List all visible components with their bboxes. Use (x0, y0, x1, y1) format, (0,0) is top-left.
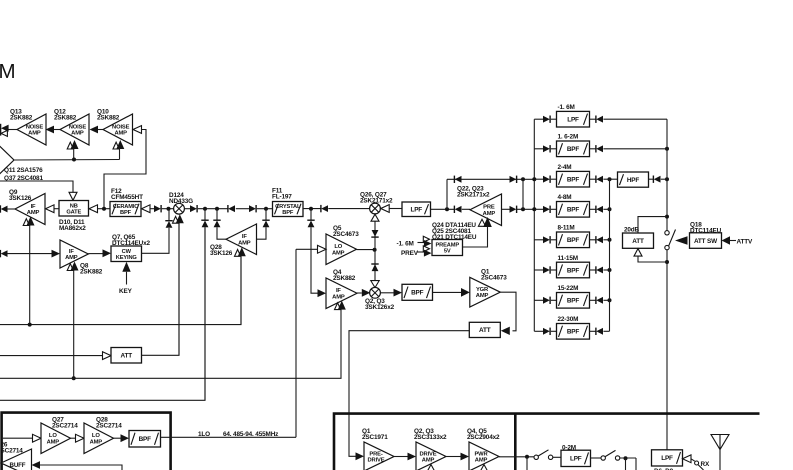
wire right bus x=667 upper (666, 119, 668, 230)
switch on right bus (RX att bypass) (665, 231, 669, 235)
wire PA output (499, 456, 534, 458)
svg-text:AMP: AMP (114, 131, 127, 137)
wire bank row 5 right (590, 239, 596, 241)
arrow into mixer D124 bottom (double) (173, 216, 179, 223)
diode at left edge of noise amp output (with direction arrow) (0, 124, 2, 136)
wire bank row 2 left (534, 148, 543, 150)
svg-text:AMP: AMP (71, 131, 84, 137)
svg-text:2SK2171x2: 2SK2171x2 (457, 192, 490, 199)
wire LO junction up to mixer Q26/Q27 (374, 221, 376, 250)
wire to drive amp (394, 456, 408, 458)
svg-text:ATT: ATT (121, 353, 133, 360)
filter BPF 11-15M (557, 262, 590, 278)
wire corner down x=636 (635, 458, 637, 470)
diode at left edge y=253.6 (0, 250, 1, 257)
gate arrow under Q9 (23, 219, 29, 226)
node right bus junction y=148.8 (665, 147, 669, 151)
diode hanging at x=266 (Q28 input) (262, 219, 269, 221)
svg-text:NB: NB (70, 203, 78, 209)
svg-text:BPF: BPF (567, 298, 580, 305)
svg-text:22-30M: 22-30M (558, 316, 579, 323)
node inner bus junction row 5 (608, 238, 612, 242)
wire row 3 to HPF junction (603, 178, 617, 180)
diode bank row 8 right (595, 328, 597, 335)
svg-text:2SK882: 2SK882 (97, 115, 120, 122)
svg-text:ATT: ATT (479, 327, 491, 334)
wire bank row 1 right (590, 118, 596, 120)
svg-text:BPF: BPF (120, 210, 132, 216)
arrow into DRIVE AMP (408, 453, 417, 461)
gate arrows under preamp (478, 219, 485, 226)
svg-text:LO: LO (92, 433, 100, 439)
diode bank row 2 left (543, 145, 550, 152)
gate arrow under Q12 (67, 142, 73, 149)
svg-text:3SK126x2: 3SK126x2 (365, 304, 395, 311)
svg-text:2SC4673: 2SC4673 (481, 274, 507, 281)
wire to PWR amp (446, 456, 461, 458)
svg-text:1LO: 1LO (198, 431, 210, 438)
diode on bypass left (453, 176, 455, 183)
arrow into Q9 input (hollow) (46, 205, 55, 213)
diode in LO path down (points up) (371, 263, 378, 265)
svg-text:IF: IF (31, 204, 36, 210)
node junction bypass x=523 (521, 177, 525, 181)
svg-text:BPF: BPF (139, 436, 152, 443)
wire Q4 output to mixer Q2/Q3 (357, 292, 362, 294)
wire IF line 2 left segment (7, 253, 52, 255)
attenuator ATT 20dB (623, 233, 654, 248)
svg-text:-1. 6M: -1. 6M (558, 104, 575, 111)
svg-text:DRIVE: DRIVE (368, 458, 385, 464)
diode bank row 3 right (595, 176, 597, 183)
filter BPF 8-11M (557, 232, 590, 248)
wire preamp base to diode (502, 208, 510, 210)
wire switch 2 to junction (620, 457, 636, 459)
wire AGC line B y=378.3 (0, 309, 341, 379)
wire preamp bypass top y=179.3 (447, 178, 534, 180)
mixer Q2,Q3 3SK126x2 (TX mixer) (370, 287, 381, 298)
diode bank row 1 right (595, 116, 597, 123)
svg-text:AMP: AMP (332, 294, 345, 300)
wire mixer Q2/Q3 output (380, 292, 393, 294)
svg-text:4-8M: 4-8M (558, 194, 572, 201)
wire x=205 down to AGC line C (204, 227, 206, 400)
pre-driver Q1 2SC1971 (364, 442, 394, 470)
wire x=205 diode top stub (204, 209, 206, 220)
wire VCO input y=438 (3, 437, 33, 439)
wire bank row 7 to inner bus (603, 299, 609, 301)
wire PREV to preamp box (417, 251, 425, 253)
svg-text:LO: LO (334, 244, 342, 250)
svg-text:BPF: BPF (567, 237, 580, 244)
svg-text:NOISE: NOISE (112, 124, 130, 130)
preamp Q22,Q23 2SK2171x2 (470, 194, 502, 226)
wire Q28 output tip up to IF line (217, 227, 226, 239)
svg-text:IF: IF (242, 234, 247, 240)
wire Q28 to BPF (114, 437, 122, 439)
arrow into mixer Q2/Q3 top (hollow, down) (371, 281, 379, 288)
arrow into NB GATE top (hollow, down) (69, 192, 77, 200)
svg-text:BPF: BPF (567, 207, 580, 214)
arrow into mixer right side (hollow) (381, 205, 390, 213)
noise amp Q10 (103, 114, 133, 145)
svg-text:LPF: LPF (661, 455, 673, 462)
node junction y=216.6 (665, 215, 669, 219)
svg-text:ATT: ATT (632, 238, 644, 245)
svg-text:BPF: BPF (411, 290, 424, 297)
svg-text:CERAMIC: CERAMIC (113, 204, 139, 210)
mixer Q26,Q27 2SK2171x2 (1st RX mixer) (370, 203, 381, 214)
arrow into BUFF input (points left) (32, 461, 41, 469)
gate arrow under Q10 (113, 142, 119, 149)
wire Q10 tip to Q12 input arrow (98, 129, 103, 131)
arrow into Q8 input (52, 250, 61, 258)
KEY input arrow (122, 262, 130, 272)
gate arrow under PWR amp (clipped) (480, 465, 488, 470)
power amp Q4,Q5 2SC2904x2 (469, 442, 499, 470)
wire bank row 3 right (590, 178, 596, 180)
svg-text:8-11M: 8-11M (558, 225, 575, 232)
svg-text:AMP: AMP (47, 439, 60, 445)
svg-text:2SC3133x2: 2SC3133x2 (414, 434, 447, 441)
arrow ATT SW output (points left) (675, 236, 688, 245)
wire diode to mixer (328, 208, 369, 210)
wire Q27 to Q28 (71, 437, 77, 439)
arrow into F12 (hollow) (142, 205, 151, 213)
wire to mixer D124 (162, 208, 174, 210)
CW KEYING box Q7,Q65 DTC114EUx2 (111, 246, 142, 262)
svg-text:MA862x2: MA862x2 (59, 225, 86, 232)
arrow into TX ATT (points left) (501, 327, 510, 335)
svg-text:AMP: AMP (483, 211, 496, 217)
wire junction down x=625.5 (625, 458, 627, 470)
wire bank row 7 right (590, 299, 596, 301)
wire inner right bus x=609.5 (609, 179, 611, 331)
wire ceramic BPF to NB GATE (98, 208, 111, 210)
diode hanging at x=217 (Q28 output) (213, 219, 220, 221)
diode bank row 5 right (595, 236, 597, 243)
node junction x=609.5 y=179 (608, 177, 612, 181)
wire AGC line C y=400.3 (0, 227, 205, 400)
svg-text:NOISE: NOISE (69, 124, 87, 130)
wire AGC line A y=324.6 (0, 256, 241, 325)
node junction x=523 y=209 (521, 207, 525, 211)
gate arrow under Q4 (335, 303, 341, 310)
svg-text:PREV: PREV (401, 250, 419, 257)
svg-text:LPF: LPF (570, 456, 582, 463)
svg-text:FL-197: FL-197 (272, 194, 292, 201)
node inner bus junction row 4 (608, 207, 612, 211)
gate arrow under drive amp (clipped) (427, 465, 435, 470)
wire segment (236, 208, 249, 210)
IF amp Q8 (60, 240, 88, 268)
filter LPF (antenna) (652, 450, 683, 466)
arrow ATTV into ATT SW (points left) (722, 236, 731, 244)
arrow into Q13 input (46, 126, 55, 134)
diode bank row 2 right (595, 145, 597, 152)
svg-text:KEYING: KEYING (116, 255, 138, 261)
wire BPF to YGR amp (433, 291, 462, 293)
filter BPF (1st LO) (129, 431, 161, 448)
NB GATE box D10 D11 (59, 201, 89, 217)
wire 1st LO feed to Q5 (296, 248, 318, 250)
svg-text:IF: IF (69, 249, 74, 255)
wire HPF diode to right bus (649, 178, 654, 180)
wire bank row 8 to inner bus (603, 330, 609, 332)
wire bank row 5 to inner bus (603, 239, 609, 241)
svg-text:-1. 6M: -1. 6M (397, 240, 414, 247)
svg-text:2SC2904x2: 2SC2904x2 (467, 434, 500, 441)
diode bank row 8 left (543, 328, 550, 335)
diode on IF line x=249 (249, 205, 256, 212)
svg-text:2SC4673: 2SC4673 (333, 231, 359, 238)
wire bank left bus x=534.3 (533, 119, 535, 331)
svg-text:NOISE: NOISE (26, 124, 44, 130)
wire Q8 gate down to line B (73, 270, 75, 379)
filter LPF 0-2M (561, 450, 591, 466)
wire Q9 gate down to AGC line A (29, 225, 31, 325)
arrow -1.6M into PREAMP box (double) (423, 236, 429, 242)
wire bank row 2 right (590, 148, 596, 150)
wire 2nd LO into D124 from ATT below (178, 221, 180, 355)
wire ATT row input y=355.6 (0, 355, 103, 357)
filter HPF (618, 172, 649, 187)
node junction x=447 preamp bypass (445, 207, 449, 211)
wire bank row 1 left (534, 118, 543, 120)
diode on bypass right (510, 176, 517, 183)
svg-text:2SK882: 2SK882 (54, 115, 77, 122)
svg-text:15-22M: 15-22M (558, 285, 579, 292)
svg-text:BPF: BPF (567, 267, 580, 274)
svg-text:IF: IF (336, 288, 341, 294)
wire bank row 6 right (590, 269, 596, 271)
wire PREAMP 5V to preamp gate (463, 227, 488, 247)
PREAMP 5V control box (432, 240, 463, 256)
arrow into Q10 input (hollow) (133, 126, 142, 134)
wire bypass vertical x=523 (522, 179, 524, 209)
node AGC junction under Q12 (72, 158, 76, 162)
IF amp Q28 (reverse) (226, 224, 257, 255)
wire diode to preamp tip (462, 208, 470, 210)
svg-text:2SK2171x2: 2SK2171x2 (360, 198, 393, 205)
svg-text:ATTV: ATTV (737, 238, 753, 245)
wire ATTV (730, 240, 736, 242)
diode bank row 6 left (543, 267, 550, 274)
wire -1.6M to preamp box (418, 242, 425, 244)
amp Q1 2SC4673 YGR (470, 277, 501, 307)
wire bank row 5 left (534, 239, 543, 241)
driver Q2,Q3 2SC3133x2 (416, 442, 446, 470)
svg-text:Q11 2SA1576: Q11 2SA1576 (4, 167, 43, 174)
arrow into Q12 input (90, 126, 99, 134)
wire LPF to preamp section (431, 208, 455, 210)
wire IF line junction down to Q28 input (257, 227, 267, 239)
wire NB GATE to Q9 (54, 208, 59, 210)
svg-text:AMP: AMP (475, 458, 488, 464)
filter BPF 15-22M (557, 293, 590, 309)
svg-text:BPF: BPF (567, 329, 580, 336)
node LO junction x=374.6 (373, 248, 377, 252)
wire bank row 6 to inner bus (603, 269, 609, 271)
buffer amp Q26 2SC2714 (clipped) (1, 449, 32, 470)
svg-text:2SK882: 2SK882 (10, 115, 33, 122)
arrow into Q5 input (hollow) (318, 245, 327, 253)
diode bank row 4 left (543, 206, 550, 213)
switch RX (695, 461, 699, 465)
diode bank row 3 left (543, 176, 550, 183)
ceramic filter F12 CFM455HT (110, 202, 141, 217)
diode bank row 6 right (595, 266, 597, 273)
svg-text:CW: CW (122, 249, 132, 255)
svg-text:SC2714: SC2714 (1, 448, 24, 455)
svg-text:LPF: LPF (410, 207, 422, 214)
wire bank row 4 to inner bus (603, 208, 609, 210)
svg-text:BUFF: BUFF (10, 462, 26, 469)
node bus junction y=209 (532, 207, 536, 211)
svg-text:AMP: AMP (65, 255, 78, 261)
attenuator ATT (TX path) (469, 322, 500, 337)
unit box PA (bottom middle) (334, 414, 760, 470)
wire noise-amp output to left edge y=129.5 (9, 129, 18, 131)
wire bank row 6 left (534, 269, 543, 271)
arrow into LO BPF (121, 434, 130, 442)
arrow into mixer Q26/Q27 bottom (hollow) (371, 214, 379, 221)
svg-text:CFM455HT: CFM455HT (111, 194, 143, 201)
wire 1st LO vertical x=296 (295, 249, 297, 437)
svg-text:AMP: AMP (476, 293, 489, 299)
node junction y=262 (665, 260, 669, 264)
wire right bus x=667 lower (666, 250, 668, 450)
svg-text:PWR: PWR (474, 451, 488, 457)
wire bank row 1 to right bus (603, 118, 667, 120)
diode bank row 7 right (595, 297, 597, 304)
wire Q5 output to LO junction (357, 249, 375, 251)
svg-text:11-15M: 11-15M (558, 255, 578, 262)
wire bank row 4 right (590, 208, 596, 210)
diode in LO path up (points down) (372, 230, 379, 237)
wire Q8 output to CW KEYING (88, 253, 102, 255)
node junction x=527 (525, 455, 529, 459)
mixer D124 ND433G (174, 203, 185, 214)
diode at left edge of IF line y=209 (0, 205, 1, 212)
diode bank row 1 left (543, 116, 550, 123)
wire to RX switch (691, 459, 695, 461)
wire segment to crystal BPF (257, 208, 273, 210)
svg-text:20dB: 20dB (624, 226, 640, 233)
arrow into Q4 input (318, 289, 327, 297)
diode after mixer D124 (190, 205, 197, 212)
svg-text:ND433G: ND433G (169, 198, 193, 205)
arrow into CW KEYING input (103, 249, 112, 257)
node junction line A x=29.7 (28, 323, 32, 327)
diode hanging at x=205 (201, 219, 208, 221)
node junction CW keying tap (167, 207, 171, 211)
svg-text:RX: RX (701, 461, 710, 468)
arrow into TX BPF (394, 289, 403, 297)
diode on IF line x=228 (points left) (227, 205, 229, 212)
gate arrow under Q8 (67, 264, 73, 271)
filter BPF (TX IF) (402, 284, 433, 300)
svg-text:3SK126: 3SK126 (210, 250, 233, 257)
wire bank row 7 left (534, 299, 543, 301)
crystal filter F11 FL-197 (273, 202, 304, 217)
wire 1st LO output to Q5 (161, 436, 297, 438)
wire Q28 gate down to AGC line A end (240, 256, 242, 325)
wire YGR output to ATT (500, 292, 516, 331)
wire Q12 tip to Q13 input arrow (54, 129, 60, 131)
svg-text:DTC114EUx2: DTC114EUx2 (112, 240, 151, 247)
svg-text:PREAMP: PREAMP (436, 243, 460, 249)
node junction x=217 (215, 207, 219, 211)
svg-text:BPF: BPF (567, 146, 580, 153)
arrow into antenna LPF (hollow, points left) (683, 455, 692, 463)
arrow into ATT (2nd LO) input (hollow) (103, 352, 112, 360)
wire diode to F12 arrow (150, 208, 154, 210)
diode hanging at x=311 (Q4 feed) (307, 219, 314, 221)
svg-text:PRE-: PRE- (369, 451, 382, 457)
wire feed to Q10 input from IF line (104, 130, 146, 209)
svg-text:HPF: HPF (627, 177, 640, 184)
amp Q11/Q37 (clipped at left edge) (0, 131, 14, 189)
node right bus junction y=179.2 (665, 177, 669, 181)
diode after HPF (652, 176, 654, 183)
svg-text:BPF: BPF (567, 177, 580, 184)
svg-text:M: M (0, 60, 16, 83)
node junction x=311 (309, 207, 313, 211)
node junction x=266 (264, 207, 268, 211)
ATT SW box Q18 (690, 233, 722, 249)
wire bank row 4 left (534, 208, 543, 210)
noise amp Q13 (17, 114, 46, 145)
wire preamp bypass vertical left x=447 (446, 179, 448, 209)
filter BPF 2-4M (557, 171, 590, 187)
svg-text:1. 6-2M: 1. 6-2M (558, 134, 579, 141)
gate arrow under Q28 (235, 250, 241, 257)
wire crystal BPF to mixer Q26/Q27 (303, 208, 321, 210)
arrow into PRE-DRIVE (356, 452, 365, 460)
antenna (719, 450, 721, 470)
svg-text:2SK882: 2SK882 (333, 275, 356, 282)
filter BPF 4-8M (557, 202, 590, 218)
node IF line junction x=104 (102, 207, 106, 211)
LO amp Q28 2SC2714 (84, 423, 114, 454)
svg-text:AMP: AMP (28, 131, 41, 137)
node junction x=625.5 (624, 456, 628, 460)
arrow into PWR AMP (461, 453, 470, 461)
svg-text:AMP: AMP (27, 210, 40, 216)
wire preamp output to bank bus (517, 208, 534, 210)
arrow into LO amp Q28 (hollow) (76, 434, 85, 442)
diode before preamp (left) (453, 206, 455, 213)
svg-text:LO: LO (49, 433, 57, 439)
unit box divider x=515 (514, 414, 517, 470)
attenuator ATT box (2nd LO path) (111, 348, 142, 364)
arrow under ATT 20dB (hollow) (634, 249, 642, 257)
noise amp Q12 (60, 114, 89, 145)
wire bank row 8 left (534, 330, 543, 332)
wire x=311 down to Q4 IF amp input (311, 227, 318, 293)
svg-text:CRYSTAL: CRYSTAL (275, 204, 301, 210)
svg-text:ATT SW: ATT SW (694, 238, 718, 245)
switch TX/antenna 1 (534, 455, 538, 459)
diode after preamp (right) (510, 206, 517, 213)
svg-text:3SK126: 3SK126 (9, 195, 32, 202)
LO amp Q5 2SC4673 (326, 234, 357, 265)
arrow into NB GATE input (hollow) (89, 205, 98, 213)
wire LO junction down to mixer Q2/Q3 (374, 250, 376, 282)
wire ATT 20dB branch top (638, 217, 667, 233)
arrow PREV into PREAMP box (double) (423, 246, 429, 252)
